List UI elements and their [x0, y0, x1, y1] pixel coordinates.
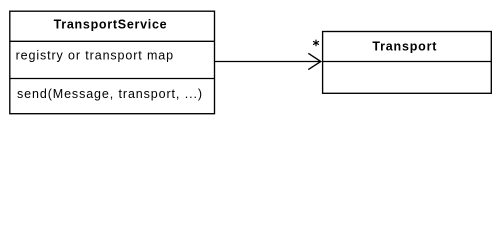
svg-text:Transport: Transport [372, 40, 437, 54]
attribute/method separator of TransportService [10, 78, 215, 80]
title separator of TransportService [10, 40, 215, 42]
open arrowhead at Transport end [308, 53, 321, 69]
multiplicity label * [314, 40, 319, 46]
class Transport box [323, 32, 492, 94]
class TransportService box [10, 11, 215, 114]
svg-text:send(Message, transport, ...): send(Message, transport, ...) [17, 87, 202, 101]
association wire TransportService to Transport [215, 61, 321, 63]
compartment separator of Transport [323, 61, 492, 63]
svg-text:registry or transport map: registry or transport map [16, 48, 174, 62]
svg-text:TransportService: TransportService [54, 18, 167, 32]
